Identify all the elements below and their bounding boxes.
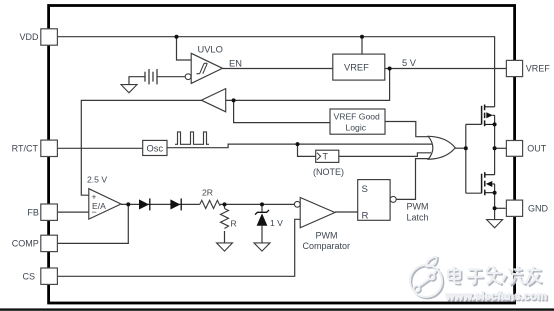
diode D1: [139, 198, 150, 210]
transistor Q1 top MOSFET: [482, 105, 495, 127]
svg-text:CS: CS: [22, 271, 35, 281]
resistor R: [221, 209, 229, 229]
ground under R: [217, 243, 233, 251]
op-amp E/A error amplifier: [89, 189, 121, 219]
buffer amplifier: [201, 89, 225, 112]
svg-text:VREF: VREF: [526, 64, 551, 74]
PWM comparator input bubble: [294, 201, 300, 207]
svg-text:VREF Good: VREF Good: [334, 112, 381, 122]
svg-text:5 V: 5 V: [402, 58, 417, 68]
wire battery to UVLO bubble: [157, 76, 185, 78]
svg-text:S: S: [362, 184, 368, 195]
pin FB: [27, 204, 57, 220]
svg-text:OUT: OUT: [527, 144, 547, 154]
wire 2R to PWM comparator bubble: [220, 203, 294, 205]
wire VREF top lead: [361, 37, 363, 54]
latch U4 PWM Latch: [358, 180, 390, 222]
op-amp PWM comparator: [300, 198, 335, 228]
svg-text:FB: FB: [27, 207, 39, 217]
svg-text:T: T: [323, 152, 329, 162]
battery reference B1: [145, 69, 157, 84]
wire 5V to VREF pin: [385, 68, 507, 70]
ground under battery: [121, 85, 137, 93]
svg-text:2R: 2R: [202, 188, 213, 198]
svg-text:PWM: PWM: [407, 202, 429, 212]
svg-text:(NOTE): (NOTE): [313, 167, 344, 177]
transistor Q2 bottom MOSFET: [482, 172, 495, 195]
ground under zener: [254, 243, 270, 251]
node clock: [296, 142, 300, 146]
svg-text:+: +: [92, 192, 97, 202]
svg-text:UVLO: UVLO: [198, 45, 223, 55]
wire RT/CT to Osc: [58, 147, 143, 149]
wire buffer output to E/A plus: [81, 100, 201, 195]
wire T block output to OR gate: [339, 153, 431, 157]
svg-text:Osc: Osc: [147, 144, 164, 154]
pin VDD: [19, 29, 57, 45]
pin OUT: [506, 141, 546, 157]
wire PWM comparator to R input: [335, 211, 358, 213]
wire R branch: [224, 204, 226, 243]
wire CS to PWM comparator: [58, 219, 301, 276]
resistor 2R: [200, 200, 220, 208]
or-gate U3: [428, 136, 455, 159]
wire VDD rail: [58, 37, 495, 107]
node OUT: [493, 146, 497, 150]
svg-text:VREF: VREF: [344, 63, 369, 73]
node OR output: [464, 146, 468, 150]
wire buffer node to VREF Good Logic: [234, 100, 330, 122]
op-amp UVLO comparator: [191, 53, 222, 83]
UVLO input bubble: [185, 74, 191, 80]
wire UVLO input branch: [177, 37, 192, 60]
wire battery to ground: [129, 77, 145, 85]
svg-text:1 V: 1 V: [270, 218, 283, 228]
oscillator clock pulses: [175, 132, 209, 144]
pin VREF: [506, 60, 550, 76]
svg-text:RT/CT: RT/CT: [12, 144, 39, 154]
svg-text:EN: EN: [229, 58, 242, 68]
wire gate drive bus: [466, 124, 482, 193]
node Q2 source: [493, 191, 497, 195]
svg-text:Comparator: Comparator: [303, 241, 351, 251]
node R top: [223, 202, 227, 206]
block VREF Good Logic: [330, 109, 385, 134]
svg-text:Logic: Logic: [346, 123, 367, 133]
pin COMP: [12, 235, 58, 251]
node E/A output: [126, 202, 130, 206]
block VREF: [333, 54, 385, 80]
node Q1 source: [493, 122, 497, 126]
wire VREF Good Logic to OR gate: [385, 122, 431, 137]
node zener top: [260, 202, 264, 206]
wire 5V down to buffer input: [226, 69, 390, 101]
wire EN: [223, 68, 333, 70]
pin RT/CT: [12, 140, 58, 156]
svg-text:PWM: PWM: [316, 231, 338, 241]
bottom page rule: [0, 308, 554, 310]
svg-text:R: R: [362, 211, 369, 222]
ground under totem pole: [487, 220, 503, 228]
node VDD-VREF: [360, 35, 364, 39]
pin GND: [506, 200, 548, 216]
wire latch output to OR gate: [397, 159, 430, 200]
wire zener branch: [261, 204, 263, 243]
wire Osc output to OR gate: [167, 144, 432, 148]
node VDD-UVLO: [175, 35, 179, 39]
node 5V: [388, 67, 392, 71]
svg-text:Latch: Latch: [407, 213, 429, 223]
svg-text:GND: GND: [528, 203, 549, 213]
pin CS: [22, 268, 57, 284]
svg-text:−: −: [92, 207, 97, 217]
wire GND: [495, 207, 506, 209]
UVLO hysteresis glyph: [197, 63, 208, 73]
wire FB to E/A minus: [58, 211, 89, 213]
zener diode 1V: [255, 210, 269, 226]
wire E/A output line: [121, 203, 200, 205]
wire clock branch to T block: [298, 144, 316, 156]
latch output bubble: [390, 196, 396, 202]
wire totem pole mid: [494, 115, 496, 219]
svg-text:COMP: COMP: [12, 239, 39, 249]
wire OR output: [455, 147, 466, 149]
node GND: [493, 206, 497, 210]
diode D2: [170, 198, 181, 210]
node buffer input: [232, 98, 236, 102]
svg-text:2.5 V: 2.5 V: [87, 175, 107, 185]
wire OUT: [495, 147, 507, 149]
block Osc: [143, 140, 167, 155]
wire COMP to E/A output: [58, 204, 129, 243]
svg-text:R: R: [231, 219, 237, 229]
block T delay: [316, 150, 339, 162]
svg-text:VDD: VDD: [19, 32, 39, 42]
